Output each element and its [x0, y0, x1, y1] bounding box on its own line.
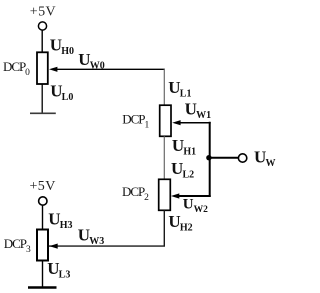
svg-text:+5V: +5V — [30, 179, 56, 194]
wire U_W0 (DCP0 wiper to node U_L1) — [54, 68, 165, 70]
potentiometer DCP1 body — [160, 105, 171, 136]
wire DCP2 bottom to DCP3 wiper (node U_H2 / U_W3) — [49, 210, 164, 246]
wiper bus wire (U_W1 corner down to U_W2 corner) — [209, 122, 211, 197]
wire DCP1 bottom to DCP2 top (nodes U_H1/U_L2) — [163, 136, 165, 179]
DCP2 wiper arrow — [171, 193, 179, 198]
wire DCP0 to ground — [41, 84, 43, 113]
potentiometer DCP2 body — [159, 179, 171, 210]
terminal circle +5V top — [38, 22, 46, 30]
wire U_W2 (DCP2 wiper to bus) — [177, 195, 211, 197]
DCP0 wiper arrow — [49, 67, 57, 72]
wire junction to output terminal — [210, 157, 238, 159]
potentiometer DCP3 body — [37, 230, 48, 261]
output terminal circle U_W — [238, 154, 246, 162]
potentiometer DCP0 body — [37, 52, 48, 84]
wire bottom terminal to DCP3 — [42, 206, 44, 230]
ground (bottom) — [28, 286, 57, 288]
terminal circle +5V bottom — [39, 197, 47, 205]
wire node U_L1 (down to DCP1 top) — [163, 69, 165, 105]
DCP3 wiper arrow — [49, 244, 57, 249]
wire U_W1 (DCP1 wiper to bus) — [179, 122, 211, 124]
wire top terminal to DCP0 — [41, 30, 43, 52]
ground (top) — [30, 112, 56, 114]
wire DCP3 to ground — [42, 261, 44, 288]
junction dot — [206, 155, 211, 160]
DCP1 wiper arrow — [172, 120, 180, 125]
svg-text:+5V: +5V — [30, 5, 56, 20]
